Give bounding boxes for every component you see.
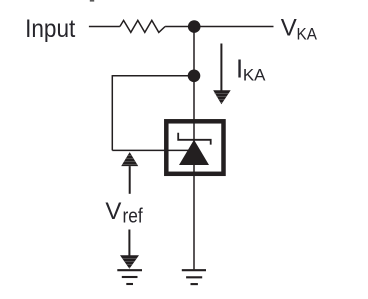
svg-text:V: V: [105, 198, 121, 225]
zener anode triangle: [179, 140, 209, 165]
ground left bar 1: [117, 269, 142, 271]
current arrow IKA shaft: [220, 44, 222, 92]
wire feedback horizontal top: [112, 75, 194, 77]
label IKA: [236, 56, 266, 85]
ground middle bar 2: [186, 276, 202, 278]
wire feedback vertical left: [111, 75, 113, 150]
svg-text:ref: ref: [123, 206, 144, 228]
svg-text:KA: KA: [243, 66, 266, 85]
Vref up arrow head: [121, 152, 138, 166]
ground left bar 2: [122, 276, 138, 278]
Vref down arrow head: [120, 255, 139, 268]
label Vref: [105, 198, 143, 228]
ground middle bar 1: [182, 269, 206, 271]
ground middle bar 3: [191, 283, 198, 285]
current arrow IKA head: [213, 90, 231, 104]
Vref up arrow shaft: [129, 166, 131, 194]
wire main vertical (cathode to ground): [193, 27, 195, 270]
zener cathode bar with bent ends: [178, 133, 211, 145]
Vref down arrow shaft: [128, 230, 130, 257]
cropped text remnant at top edge: [90, 0, 94, 2]
shunt regulator U1 box: [166, 121, 223, 174]
svg-text:KA: KA: [297, 25, 318, 44]
label VKA: [281, 15, 318, 44]
ground left bar 3: [126, 283, 133, 285]
wire feedback to reference input: [112, 149, 188, 151]
svg-text:Input: Input: [25, 15, 75, 43]
svg-text:V: V: [281, 15, 297, 42]
node junction dot 2 (feedback tap): [188, 70, 201, 83]
wire resistor to VKA: [165, 26, 273, 28]
node junction dot 1 (cathode node): [188, 20, 201, 33]
wire input lead: [89, 26, 120, 28]
resistor R1: [120, 20, 165, 32]
